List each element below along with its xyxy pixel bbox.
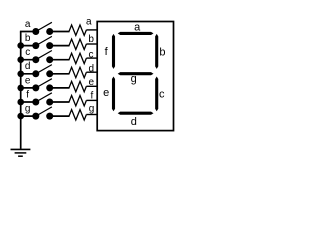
segment label b [159,47,165,59]
pin label g [89,103,95,114]
switch d (open SPST): contacts and blade [32,65,53,78]
switch f (open SPST): contacts and blade [32,93,53,106]
svg-text:f: f [105,46,109,58]
pin label e [89,77,95,88]
segment label f [105,46,109,58]
net label c [25,47,30,58]
node f bus junction [17,99,24,106]
svg-text:a: a [134,21,141,33]
resistor f [69,96,86,106]
svg-text:b: b [159,47,165,59]
segment c of display [155,77,158,112]
svg-text:g: g [89,103,95,114]
pin f lead into display [86,99,98,101]
node b bus junction [17,42,24,49]
segment label e [103,87,109,99]
pin label f [91,90,94,101]
segment g of display [118,72,154,75]
segment f of display [112,34,115,69]
node e bus junction [17,85,24,92]
svg-text:c: c [89,49,94,60]
svg-text:c: c [159,88,165,100]
node d bus junction [17,71,24,78]
wire row b: bus to switch [20,45,36,47]
svg-text:d: d [131,116,137,128]
pin d lead into display [86,71,98,73]
pin b lead into display [86,43,98,45]
pin c lead into display [86,57,98,59]
segment b of display [155,34,158,69]
svg-text:e: e [103,87,109,99]
resistor c [69,53,86,63]
resistor g [69,110,86,120]
pin label d [89,63,95,74]
net label d [25,61,31,72]
segment label g [131,73,137,85]
wire row c: bus to switch [20,59,36,61]
segment label a [134,21,141,33]
segment d of display [118,112,154,115]
pin e lead into display [86,85,98,87]
resistor a [69,25,86,35]
wire row f: switch to resistor [50,101,70,103]
net label a [25,19,31,30]
7-segment display U1: body outline [97,22,173,131]
net label b [25,33,31,44]
ground [11,149,31,156]
resistor e [69,81,86,91]
segment label c [159,88,165,100]
switch e (open SPST): contacts and blade [32,79,53,92]
svg-text:b: b [25,33,31,44]
segment label d [131,116,137,128]
svg-text:b: b [88,34,94,45]
wire row e: bus to switch [20,87,36,89]
node c bus junction [17,56,24,63]
pin label b [88,34,94,45]
net label g [25,104,31,115]
pin a lead into display [86,29,98,31]
pin label a [86,16,92,27]
svg-text:g: g [25,104,31,115]
resistor d [69,67,86,77]
svg-text:g: g [131,73,137,85]
wire row f: bus to switch [20,101,36,103]
wire row g: bus to switch [20,115,36,117]
svg-text:a: a [86,16,92,27]
node g bus junction [17,113,24,120]
net label f [26,89,29,100]
svg-text:d: d [25,61,31,72]
svg-text:e: e [89,77,95,88]
svg-text:e: e [25,75,31,86]
wire row a: switch to resistor [50,31,70,33]
wire row b: switch to resistor [50,45,70,47]
switch a (open SPST): contacts and blade [32,22,53,35]
switch g (open SPST): contacts and blade [32,107,53,120]
wire row a: bus to switch [20,31,36,33]
resistor b [69,39,86,49]
svg-text:f: f [91,90,94,101]
wire row c: switch to resistor [50,59,70,61]
segment e of display [112,77,115,112]
svg-text:f: f [26,89,29,100]
svg-text:c: c [25,47,30,58]
net label e [25,75,31,86]
pin g lead into display [86,114,98,116]
segment a of display [118,32,154,35]
wire row d: switch to resistor [50,73,70,75]
wire row g: switch to resistor [50,115,70,117]
wire row d: bus to switch [20,73,36,75]
pin label c [89,49,94,60]
ground bus wire [20,32,22,149]
wire row e: switch to resistor [50,87,70,89]
svg-text:d: d [89,63,95,74]
svg-text:a: a [25,19,31,30]
switch b (open SPST): contacts and blade [32,36,53,49]
switch c (open SPST): contacts and blade [32,51,53,64]
